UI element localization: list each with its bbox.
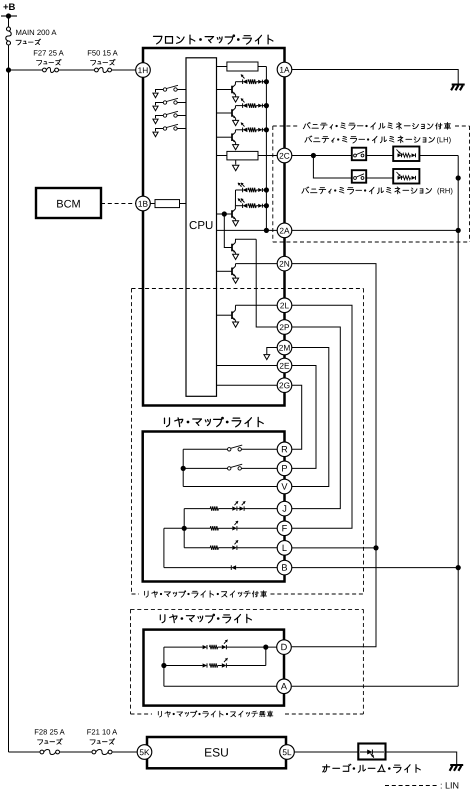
label front map light title フロント・マップ・ライト bbox=[154, 35, 162, 37]
wire A row bbox=[164, 685, 277, 687]
wire Q4 base branch to Q5 bbox=[224, 214, 232, 248]
legend LIN dashed bbox=[385, 785, 437, 787]
junction left rail to 1H feed bbox=[6, 67, 11, 72]
wire CPU to 2G bbox=[217, 384, 278, 386]
wire 2G to R bbox=[292, 385, 302, 449]
wire 5L to cargo room light bbox=[294, 751, 358, 753]
wire L to rail bbox=[292, 547, 376, 549]
node J connector bbox=[277, 501, 292, 516]
svg-text:1A: 1A bbox=[279, 65, 290, 75]
ground (emitter Q3) bbox=[233, 145, 239, 150]
ground (emitter Q4) bbox=[233, 221, 239, 226]
wire 2M to V bbox=[292, 348, 329, 487]
wire bbox=[366, 155, 393, 157]
front map light unit box bbox=[143, 48, 285, 406]
node 2P connector bbox=[277, 320, 292, 335]
label バニティ・ミラー・イルミネーション (RH) bbox=[302, 189, 304, 194]
svg-text:J: J bbox=[282, 504, 287, 514]
wire 2M to internal ground bbox=[267, 348, 277, 355]
fuse F50 15 A bbox=[95, 68, 99, 72]
switch S4 front map light bbox=[156, 129, 164, 132]
label リヤ・マップ・ライト・スイッチ無車 bbox=[157, 711, 159, 715]
svg-text:B: B bbox=[281, 563, 287, 573]
wire vanity rail right bbox=[457, 156, 459, 231]
diode + resistor + LED (D row) bbox=[164, 646, 203, 648]
transistor Q3 bbox=[217, 136, 233, 138]
node 2L connector bbox=[277, 298, 292, 313]
node R connector bbox=[277, 442, 292, 457]
svg-text:1B: 1B bbox=[138, 199, 149, 209]
ground (emitter Q2) bbox=[233, 120, 239, 125]
wire 1A to chassis ground bbox=[292, 70, 458, 85]
dashed box: with rear map light switch car bbox=[132, 288, 364, 290]
ground (emitter Q7) bbox=[233, 322, 239, 327]
resistor R6 + LED D9 (L row) bbox=[184, 547, 210, 549]
svg-text:: LIN: : LIN bbox=[440, 781, 459, 791]
switch vanity RH bbox=[352, 170, 366, 183]
wire internal LED supply rail bbox=[265, 67, 267, 231]
LED D1 with resistor bbox=[236, 81, 243, 83]
resistor R3 (2C divider) bbox=[217, 155, 227, 157]
wire B to right rail bbox=[292, 567, 458, 569]
junction rail to 2A bbox=[264, 228, 269, 233]
wire vanity RH branch bbox=[313, 156, 351, 179]
wire LIN bus BCM to 1B (dashed) bbox=[101, 203, 136, 205]
junction P row bbox=[181, 466, 186, 471]
wire 2C to vanity LH bbox=[292, 155, 352, 157]
LED D4 with resistor bbox=[236, 189, 243, 191]
wire left rail top bbox=[8, 16, 10, 27]
svg-text:2A: 2A bbox=[279, 225, 290, 235]
node 2E connector bbox=[277, 358, 292, 373]
BCM module box bbox=[36, 188, 101, 218]
ground (1A) bbox=[452, 84, 465, 86]
ESU module box bbox=[147, 737, 286, 768]
svg-text:V: V bbox=[281, 482, 288, 492]
dashed box: without rear map light switch car bbox=[131, 608, 364, 610]
wire A to right rail bbox=[292, 685, 458, 687]
node 2G connector bbox=[277, 378, 292, 393]
resistor R4 + LED D6 D7 (J row) bbox=[184, 508, 210, 510]
node L connector bbox=[277, 541, 292, 556]
switch vanity LH bbox=[352, 148, 366, 161]
wire 2P to J bbox=[292, 327, 341, 509]
resistor R1 (1B to CPU) bbox=[150, 203, 155, 205]
wire J-L bus bbox=[183, 509, 185, 548]
resistor R2 (CPU top row) bbox=[217, 66, 227, 68]
node 2C connector bbox=[277, 148, 292, 163]
svg-text:P: P bbox=[281, 463, 287, 473]
junction row2 left bbox=[161, 663, 166, 668]
svg-text:2G: 2G bbox=[279, 380, 290, 390]
transistor Q1 bbox=[217, 89, 233, 91]
svg-text:5K: 5K bbox=[139, 747, 150, 757]
svg-text:F: F bbox=[282, 523, 288, 533]
svg-text:+B: +B bbox=[3, 2, 16, 13]
wire Q5 collector to 2P bbox=[256, 239, 277, 327]
resistor R5 + LED D8 (F row) bbox=[164, 527, 210, 529]
fuse F21 10 A bbox=[92, 750, 96, 754]
node F connector bbox=[277, 521, 292, 536]
wire 2E to P bbox=[292, 366, 316, 469]
label カーゴ・ルーム・ライト bbox=[323, 766, 330, 768]
switch S2 front map light bbox=[156, 103, 164, 106]
fusible link MAIN 200 A bbox=[7, 27, 11, 31]
LED D2 with resistor bbox=[236, 105, 243, 107]
node A connector bbox=[277, 679, 292, 694]
switch S3 front map light bbox=[156, 116, 164, 119]
ground (2M) bbox=[264, 355, 270, 360]
ground (emitter Q1) bbox=[233, 97, 239, 102]
wire Q7 collector to 2L bbox=[236, 304, 278, 306]
junction D row bbox=[263, 645, 268, 650]
node +B terminal bar bbox=[1, 15, 17, 17]
node 5L connector bbox=[280, 745, 295, 760]
fuse F28 25 A bbox=[40, 750, 44, 754]
node V connector bbox=[277, 479, 292, 494]
svg-text:1H: 1H bbox=[138, 65, 149, 75]
node 1B connector bbox=[136, 196, 151, 211]
switch rear map light SW2 bbox=[183, 467, 227, 469]
svg-text:2C: 2C bbox=[279, 151, 290, 161]
junction L taps 2N rail bbox=[373, 545, 378, 550]
svg-text:MAIN 200 A: MAIN 200 A bbox=[15, 28, 57, 37]
svg-text:5L: 5L bbox=[282, 747, 292, 757]
svg-text:F50 15 A: F50 15 A bbox=[87, 48, 118, 57]
ground (emitter Q5) bbox=[233, 254, 239, 259]
svg-text:CPU: CPU bbox=[189, 220, 213, 232]
wire V row bbox=[183, 486, 277, 488]
lamp vanity mirror illumination RH bbox=[393, 169, 419, 184]
wire bbox=[366, 177, 393, 179]
lamp vanity mirror illumination LH bbox=[393, 147, 419, 162]
LED D5 with resistor bbox=[236, 205, 243, 207]
diode + resistor + LED (row 2) bbox=[164, 665, 203, 667]
svg-text:R: R bbox=[281, 444, 288, 454]
node 2N connector bbox=[277, 256, 292, 271]
wire Q6 collector to 2N bbox=[236, 263, 278, 265]
wire vanity LH to rail bbox=[419, 155, 458, 157]
fuse F27 25 A bbox=[43, 68, 47, 72]
transistor Q5 (2P driver) bbox=[231, 244, 233, 252]
svg-text:F28 25 A: F28 25 A bbox=[34, 727, 65, 736]
label リヤ・マップ・ライト・スイッチ付車 bbox=[144, 591, 146, 595]
switch rear map light SW1 bbox=[183, 448, 227, 450]
svg-text:F27 25 A: F27 25 A bbox=[33, 48, 64, 57]
svg-text:2M: 2M bbox=[279, 343, 291, 353]
lamp cargo room light LED bbox=[358, 744, 385, 760]
transistor Q4 bbox=[217, 213, 233, 215]
wire row2 up to D row bbox=[265, 647, 267, 665]
svg-text:(RH): (RH) bbox=[437, 186, 453, 195]
svg-text:2P: 2P bbox=[279, 322, 290, 332]
node 5K connector bbox=[137, 745, 152, 760]
wire cargo light to ground bbox=[386, 752, 457, 765]
ground (emitter Q6) bbox=[233, 278, 239, 283]
svg-text:2N: 2N bbox=[279, 259, 290, 269]
rear map light unit box (switch type) bbox=[143, 432, 285, 582]
LED D3 with resistor bbox=[236, 129, 243, 131]
svg-text:L: L bbox=[282, 543, 287, 553]
transistor Q2 bbox=[217, 112, 233, 114]
svg-text:D: D bbox=[281, 642, 288, 652]
junction 2C branch bbox=[311, 153, 316, 158]
svg-text:2L: 2L bbox=[280, 300, 290, 310]
label リヤ・マップ・ライト title 2 bbox=[159, 615, 161, 620]
transistor Q7 (2L driver) bbox=[217, 314, 233, 316]
junction F row bbox=[182, 526, 187, 531]
junction vanity RH to rail bbox=[456, 175, 461, 180]
wire CPU to 2E bbox=[217, 365, 278, 367]
ground (R3 pull-down) bbox=[233, 165, 239, 171]
node 2A connector bbox=[277, 223, 292, 238]
label バニティ・ミラー・イルミネーション(LH) bbox=[305, 138, 307, 143]
svg-text:F21 10 A: F21 10 A bbox=[87, 727, 118, 736]
wire left bus rear unit 2 bbox=[163, 647, 165, 686]
node 2M connector bbox=[277, 340, 292, 355]
diode D10 (B row) bbox=[164, 567, 231, 569]
node 1A connector bbox=[277, 62, 292, 77]
CPU U1 box bbox=[186, 58, 217, 397]
wire rear sw bus bbox=[182, 449, 184, 486]
ground (cargo light) bbox=[450, 764, 463, 766]
label リヤ・マップ・ライト title bbox=[164, 418, 166, 423]
svg-text:(LH): (LH) bbox=[436, 135, 451, 144]
wire left rail bbox=[8, 45, 10, 752]
wire 2A to rail bbox=[292, 229, 458, 231]
node B connector bbox=[277, 560, 292, 575]
rear map light unit box (no switch type) bbox=[144, 630, 285, 706]
wire right rail down to rear units bbox=[457, 230, 459, 686]
svg-text:2E: 2E bbox=[279, 361, 290, 371]
node 1H connector bbox=[136, 63, 151, 78]
label バニティ・ミラー・イルミネーション付車 bbox=[303, 124, 305, 129]
node D connector bbox=[277, 640, 292, 655]
node P connector bbox=[277, 461, 292, 476]
wire 2L to F bbox=[292, 305, 352, 528]
wire CPU to 2A bbox=[217, 229, 278, 231]
wire 2N rail down to D bbox=[292, 264, 376, 647]
svg-text:A: A bbox=[281, 681, 288, 691]
vanity mirror illumination option dashed box bbox=[273, 125, 299, 127]
switch S1 front map light bbox=[156, 90, 164, 93]
svg-text:BCM: BCM bbox=[56, 198, 80, 210]
wire +B feed to 1H bbox=[9, 69, 43, 71]
junction B right rail bbox=[456, 565, 461, 570]
transistor Q6 (2N driver) bbox=[217, 270, 233, 272]
svg-text:ESU: ESU bbox=[204, 745, 229, 759]
wire left rail to ESU bbox=[9, 751, 41, 753]
wire F to B drop bbox=[163, 528, 165, 567]
junction 2A rail bbox=[456, 228, 461, 233]
